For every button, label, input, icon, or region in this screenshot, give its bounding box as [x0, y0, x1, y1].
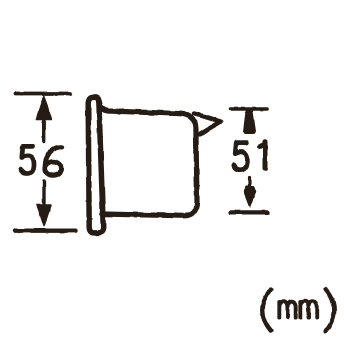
- flange (left end plate): [88, 97, 103, 233]
- body outline: [99, 101, 197, 216]
- dimension 51 top tick: [231, 107, 268, 111]
- unit label mm first m: [279, 301, 295, 317]
- label 56: [20, 146, 34, 173]
- unit label mm second m: [300, 301, 316, 317]
- dimension 56 upper stem: [42, 112, 45, 142]
- pointer tab (triangle) at top right: [195, 114, 221, 135]
- dimension 56 bottom arrowhead: [37, 205, 51, 227]
- dimension 56 top tick: [16, 92, 71, 96]
- unit label open paren: [262, 289, 271, 331]
- dimension 51 top arrowhead: [244, 111, 256, 134]
- dimension 56 top arrowhead: [36, 96, 51, 120]
- unit label close paren: [326, 289, 335, 331]
- dimension 56 bottom tick: [15, 228, 76, 232]
- dimension 51 lower stem: [248, 177, 251, 187]
- dimension 51 bottom arrowhead: [244, 186, 256, 208]
- dimension 51 bottom tick: [231, 210, 268, 214]
- dimension 56 lower stem: [42, 181, 45, 203]
- label 51: [234, 143, 248, 170]
